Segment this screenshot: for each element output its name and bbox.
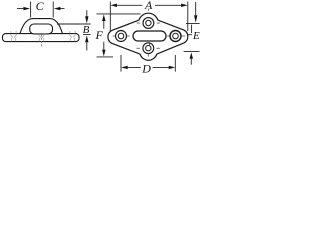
svg-text:B: B <box>83 24 90 36</box>
svg-text:C: C <box>36 0 45 13</box>
svg-text:F: F <box>95 28 104 42</box>
svg-text:D: D <box>141 61 151 75</box>
svg-text:E: E <box>192 30 200 42</box>
svg-text:A: A <box>144 0 153 12</box>
